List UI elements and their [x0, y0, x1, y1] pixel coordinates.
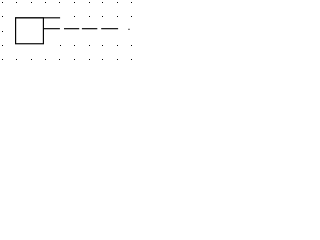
grid dots row 1 [2, 2, 132, 3]
grid dots row 5 [2, 59, 132, 60]
wire dashed segment 3 [82, 28, 97, 30]
canvas background [0, 0, 134, 62]
wire top [15, 17, 60, 19]
grid dots row 2 [2, 16, 132, 17]
component box U1 [16, 18, 44, 44]
wire dashed segment 4 [101, 28, 118, 30]
wire dashed end dot [128, 29, 129, 30]
grid dots row 4 [2, 45, 132, 46]
wire dashed segment 1 [43, 28, 60, 30]
grid dots row 3 [2, 31, 3, 32]
wire dashed segment 2 [64, 28, 79, 30]
